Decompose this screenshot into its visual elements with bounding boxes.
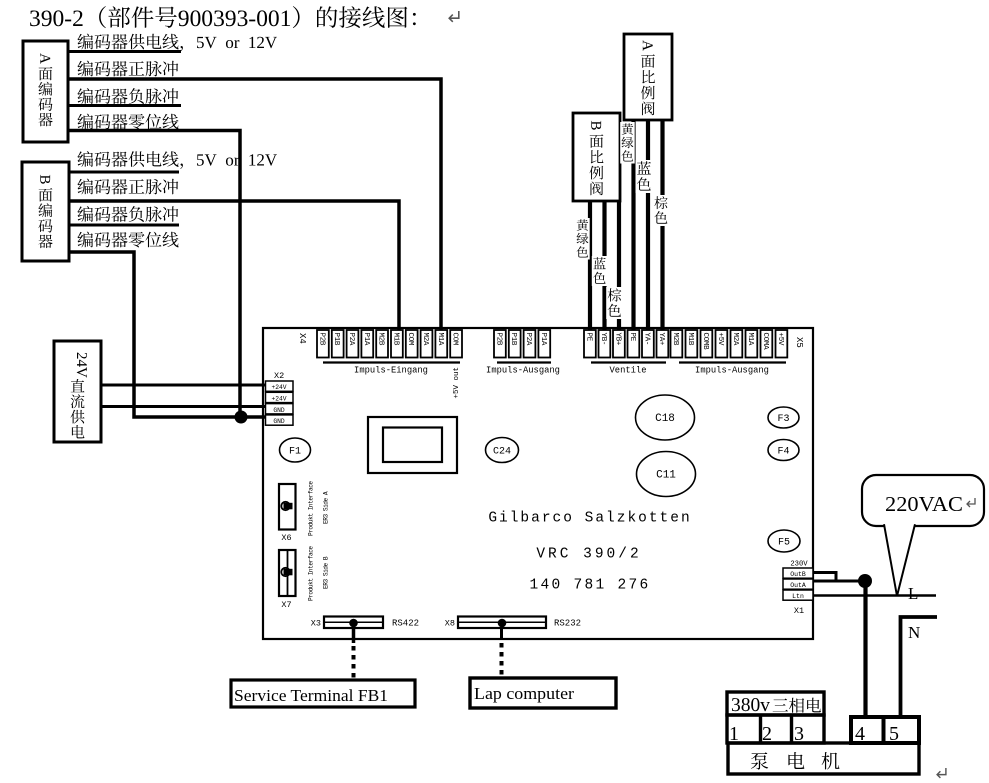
wire N corner to terminal 5	[901, 617, 938, 719]
label A valve wire brown (棕色)	[653, 195, 669, 226]
junction dot 220VAC live	[858, 574, 872, 588]
svg-text:+5V: +5V	[716, 333, 724, 346]
wire A encoder positive pulse to pin M1A	[68, 79, 441, 334]
label B encoder zero line	[77, 232, 93, 248]
wire A valve brown to YA+	[660, 120, 664, 334]
svg-text:Lap computer: Lap computer	[474, 684, 574, 703]
dotted link X3 to service terminal	[352, 646, 356, 679]
capacitor C11	[637, 452, 696, 497]
svg-text:Ventile: Ventile	[610, 366, 647, 376]
svg-text:COM: COM	[451, 333, 459, 346]
paragraph mark after 220VAC	[967, 498, 975, 507]
box 24V DC supply (24V直流供电)	[54, 341, 101, 442]
label +5V out (rotated)	[453, 367, 461, 399]
connector X5 pin row Impuls-Ausgang 2 (M2B M1B COMB +5V M2A M1A COMA +5V)	[671, 330, 683, 358]
svg-text:L: L	[908, 584, 918, 603]
fuse F3	[768, 407, 799, 428]
label ER3 Side A (rotated)	[323, 491, 330, 524]
svg-text:P1A: P1A	[362, 333, 370, 346]
wire A encoder negative pulse	[68, 104, 181, 107]
svg-text:F4: F4	[777, 447, 789, 458]
svg-text:F5: F5	[778, 538, 790, 549]
svg-text:X3: X3	[311, 619, 321, 629]
svg-text:PE: PE	[584, 333, 592, 342]
connector X1 pin column (OutB OutA Ltn)	[783, 568, 813, 578]
svg-text:P1B: P1B	[509, 333, 517, 346]
capacitor C24	[486, 438, 519, 463]
svg-text:+24V: +24V	[271, 396, 286, 403]
wire B encoder zero line to X2 GND	[69, 252, 266, 417]
wire junction down to terminal 4	[863, 581, 867, 719]
wire GND supply to X2	[101, 405, 266, 408]
svg-text:M2A: M2A	[421, 333, 429, 346]
label A encoder zero line	[77, 114, 93, 130]
svg-text:ER3 Side B: ER3 Side B	[323, 556, 330, 589]
connector pin row Ventile (PE YB- YB+ PE YA- YA+)	[584, 330, 596, 358]
group underline Impuls-Ausgang 2	[679, 361, 786, 363]
svg-text:X7: X7	[281, 600, 291, 610]
box A-side proportional valve (A面比例阀)	[624, 34, 672, 120]
svg-text:Produkt Interface: Produkt Interface	[308, 546, 315, 601]
label A encoder supply line 5V or 12V	[77, 34, 93, 50]
group underline Impuls-Eingang	[323, 361, 460, 363]
junction dot GND node	[235, 411, 248, 424]
terminal block 4 5	[851, 717, 919, 743]
svg-text:220VAC: 220VAC	[885, 492, 963, 516]
wire B valve yellow-green to PE	[588, 201, 592, 334]
box A-side encoder (A面编码器)	[23, 41, 68, 142]
wire OutA to junction	[813, 580, 865, 583]
wire L line from Ltn	[813, 594, 936, 597]
svg-text:OutA: OutA	[790, 582, 806, 589]
svg-text:OutB: OutB	[790, 571, 806, 578]
connector X2 pin column (+24V +24V GND GND)	[266, 381, 294, 391]
svg-text:M2B: M2B	[377, 333, 385, 346]
svg-text:VRC 390/2: VRC 390/2	[536, 547, 641, 563]
box Service Terminal FB1	[231, 680, 415, 707]
svg-text:P2B: P2B	[494, 333, 502, 346]
label A valve wire blue (蓝色)	[636, 160, 653, 193]
svg-text:X2: X2	[274, 371, 284, 381]
svg-text:F1: F1	[289, 447, 301, 458]
label B valve wire yellow-green (黄绿色)	[575, 218, 590, 260]
label A valve wire yellow-green (黄绿色)	[620, 122, 635, 164]
svg-text:X4: X4	[297, 333, 307, 344]
label B valve wire blue (蓝色)	[592, 256, 608, 286]
wire A encoder supply	[68, 50, 181, 53]
svg-text:COMA: COMA	[761, 333, 769, 351]
fuse F4	[768, 440, 799, 461]
svg-text:P2A: P2A	[347, 333, 355, 346]
svg-text:+24V: +24V	[271, 384, 286, 391]
label ER3 Side B (rotated)	[323, 556, 330, 589]
svg-text:Impuls-Ausgang: Impuls-Ausgang	[486, 366, 560, 376]
terminal block 1 2 3	[727, 715, 824, 743]
title text 390-2 wiring diagram	[30, 10, 40, 26]
box pump motor (泵 电 机)	[728, 743, 919, 774]
connector X5 label	[794, 337, 804, 348]
wire A encoder zero line to GND junction	[68, 131, 240, 418]
group underline Impuls-Ausgang 1	[497, 361, 551, 363]
svg-text:Service Terminal FB1: Service Terminal FB1	[234, 686, 388, 705]
wire +24V supply to X2	[101, 384, 266, 387]
paragraph mark bottom right	[937, 768, 946, 778]
wire A valve blue to YA-	[646, 120, 650, 334]
label A encoder negative pulse	[77, 88, 93, 104]
svg-text:X6: X6	[281, 533, 291, 543]
svg-text:GND: GND	[273, 407, 285, 414]
svg-text:YA+: YA+	[657, 333, 665, 346]
connector X4 label	[297, 333, 307, 344]
svg-text:C18: C18	[655, 413, 675, 425]
svg-text:140 781 276: 140 781 276	[529, 578, 650, 594]
svg-text:P1B: P1B	[332, 333, 340, 346]
svg-text:M2A: M2A	[731, 333, 739, 346]
wire B valve blue to YB-	[602, 201, 606, 334]
svg-text:Impuls-Eingang: Impuls-Eingang	[354, 366, 428, 376]
dotted link X8 to lap computer	[500, 643, 504, 677]
label B encoder supply line 5V or 12V	[77, 151, 93, 167]
label B valve wire brown (棕色)	[606, 287, 623, 319]
svg-text:+5V: +5V	[776, 333, 784, 346]
wire B encoder positive pulse to pin M1B	[69, 201, 399, 334]
capacitor C18	[636, 395, 695, 440]
module U1 (square component)	[368, 417, 457, 473]
label B encoder negative pulse	[77, 206, 93, 222]
svg-text:YA-: YA-	[642, 333, 650, 346]
svg-text:N: N	[908, 623, 920, 642]
label Produkt Interface B (rotated)	[308, 546, 315, 601]
svg-text:M1A: M1A	[436, 333, 444, 346]
svg-text:P2A: P2A	[524, 333, 532, 346]
paragraph mark after title	[449, 11, 459, 22]
svg-text:M2B: M2B	[671, 333, 679, 346]
fuse F1	[280, 438, 311, 462]
svg-text:YB+: YB+	[613, 333, 621, 346]
wire B encoder supply	[69, 171, 179, 174]
connector X6 Produkt Interface side A	[279, 484, 296, 530]
svg-text:P1A: P1A	[539, 333, 547, 346]
svg-text:YB-: YB-	[599, 333, 607, 346]
svg-text:M1B: M1B	[391, 333, 399, 346]
svg-text:M1A: M1A	[746, 333, 754, 346]
svg-text:Impuls-Ausgang: Impuls-Ausgang	[695, 366, 769, 376]
label Produkt Interface A (rotated)	[308, 481, 315, 536]
callout bubble 220VAC	[862, 475, 984, 526]
svg-text:Ltn: Ltn	[792, 593, 804, 600]
svg-text:X1: X1	[794, 606, 804, 616]
wire OutB to junction	[813, 573, 836, 582]
label A encoder positive pulse	[77, 61, 93, 77]
svg-text:GND: GND	[273, 418, 285, 425]
svg-text:PE: PE	[628, 333, 636, 342]
svg-text:RS422: RS422	[392, 619, 419, 629]
svg-text:P2B: P2B	[317, 333, 325, 346]
wire A valve yellow-green to PE	[631, 120, 635, 334]
PCB board outline VRC 390/2	[263, 328, 813, 639]
label B encoder positive pulse	[77, 179, 93, 195]
svg-text:Produkt Interface: Produkt Interface	[308, 481, 315, 536]
connector X4 pin row Impuls-Eingang (P2B P1B P2A P1A M2B M1B COM M2A M1A COM)	[317, 330, 329, 358]
svg-text:+5V out: +5V out	[453, 367, 461, 399]
svg-text:COM: COM	[406, 333, 414, 346]
wire B valve brown to YB+	[617, 201, 621, 334]
connector X7 Produkt Interface side B	[279, 550, 296, 596]
svg-text:ER3 Side A: ER3 Side A	[323, 491, 330, 524]
svg-text:M1B: M1B	[686, 333, 694, 346]
connector pin row Impuls-Ausgang 1 (P2B P1B P2A P1A)	[494, 330, 506, 358]
box B-side encoder (B面编码器)	[22, 162, 69, 261]
svg-text:C24: C24	[493, 447, 511, 458]
svg-text:Gilbarco Salzkotten: Gilbarco Salzkotten	[488, 511, 691, 527]
wire B encoder negative pulse	[69, 224, 179, 227]
box 380v three-phase (380v 三相电)	[727, 692, 824, 715]
svg-text:RS232: RS232	[554, 619, 581, 629]
group underline Ventile	[591, 361, 666, 363]
box B-side proportional valve (B面比例阀)	[573, 113, 620, 201]
fuse F5	[768, 530, 800, 552]
svg-text:COMB: COMB	[701, 333, 709, 351]
svg-text:C11: C11	[656, 470, 676, 482]
box Lap computer	[470, 678, 616, 708]
svg-text:X5: X5	[794, 337, 804, 348]
svg-text:X8: X8	[445, 619, 455, 629]
svg-text:F3: F3	[777, 414, 789, 425]
